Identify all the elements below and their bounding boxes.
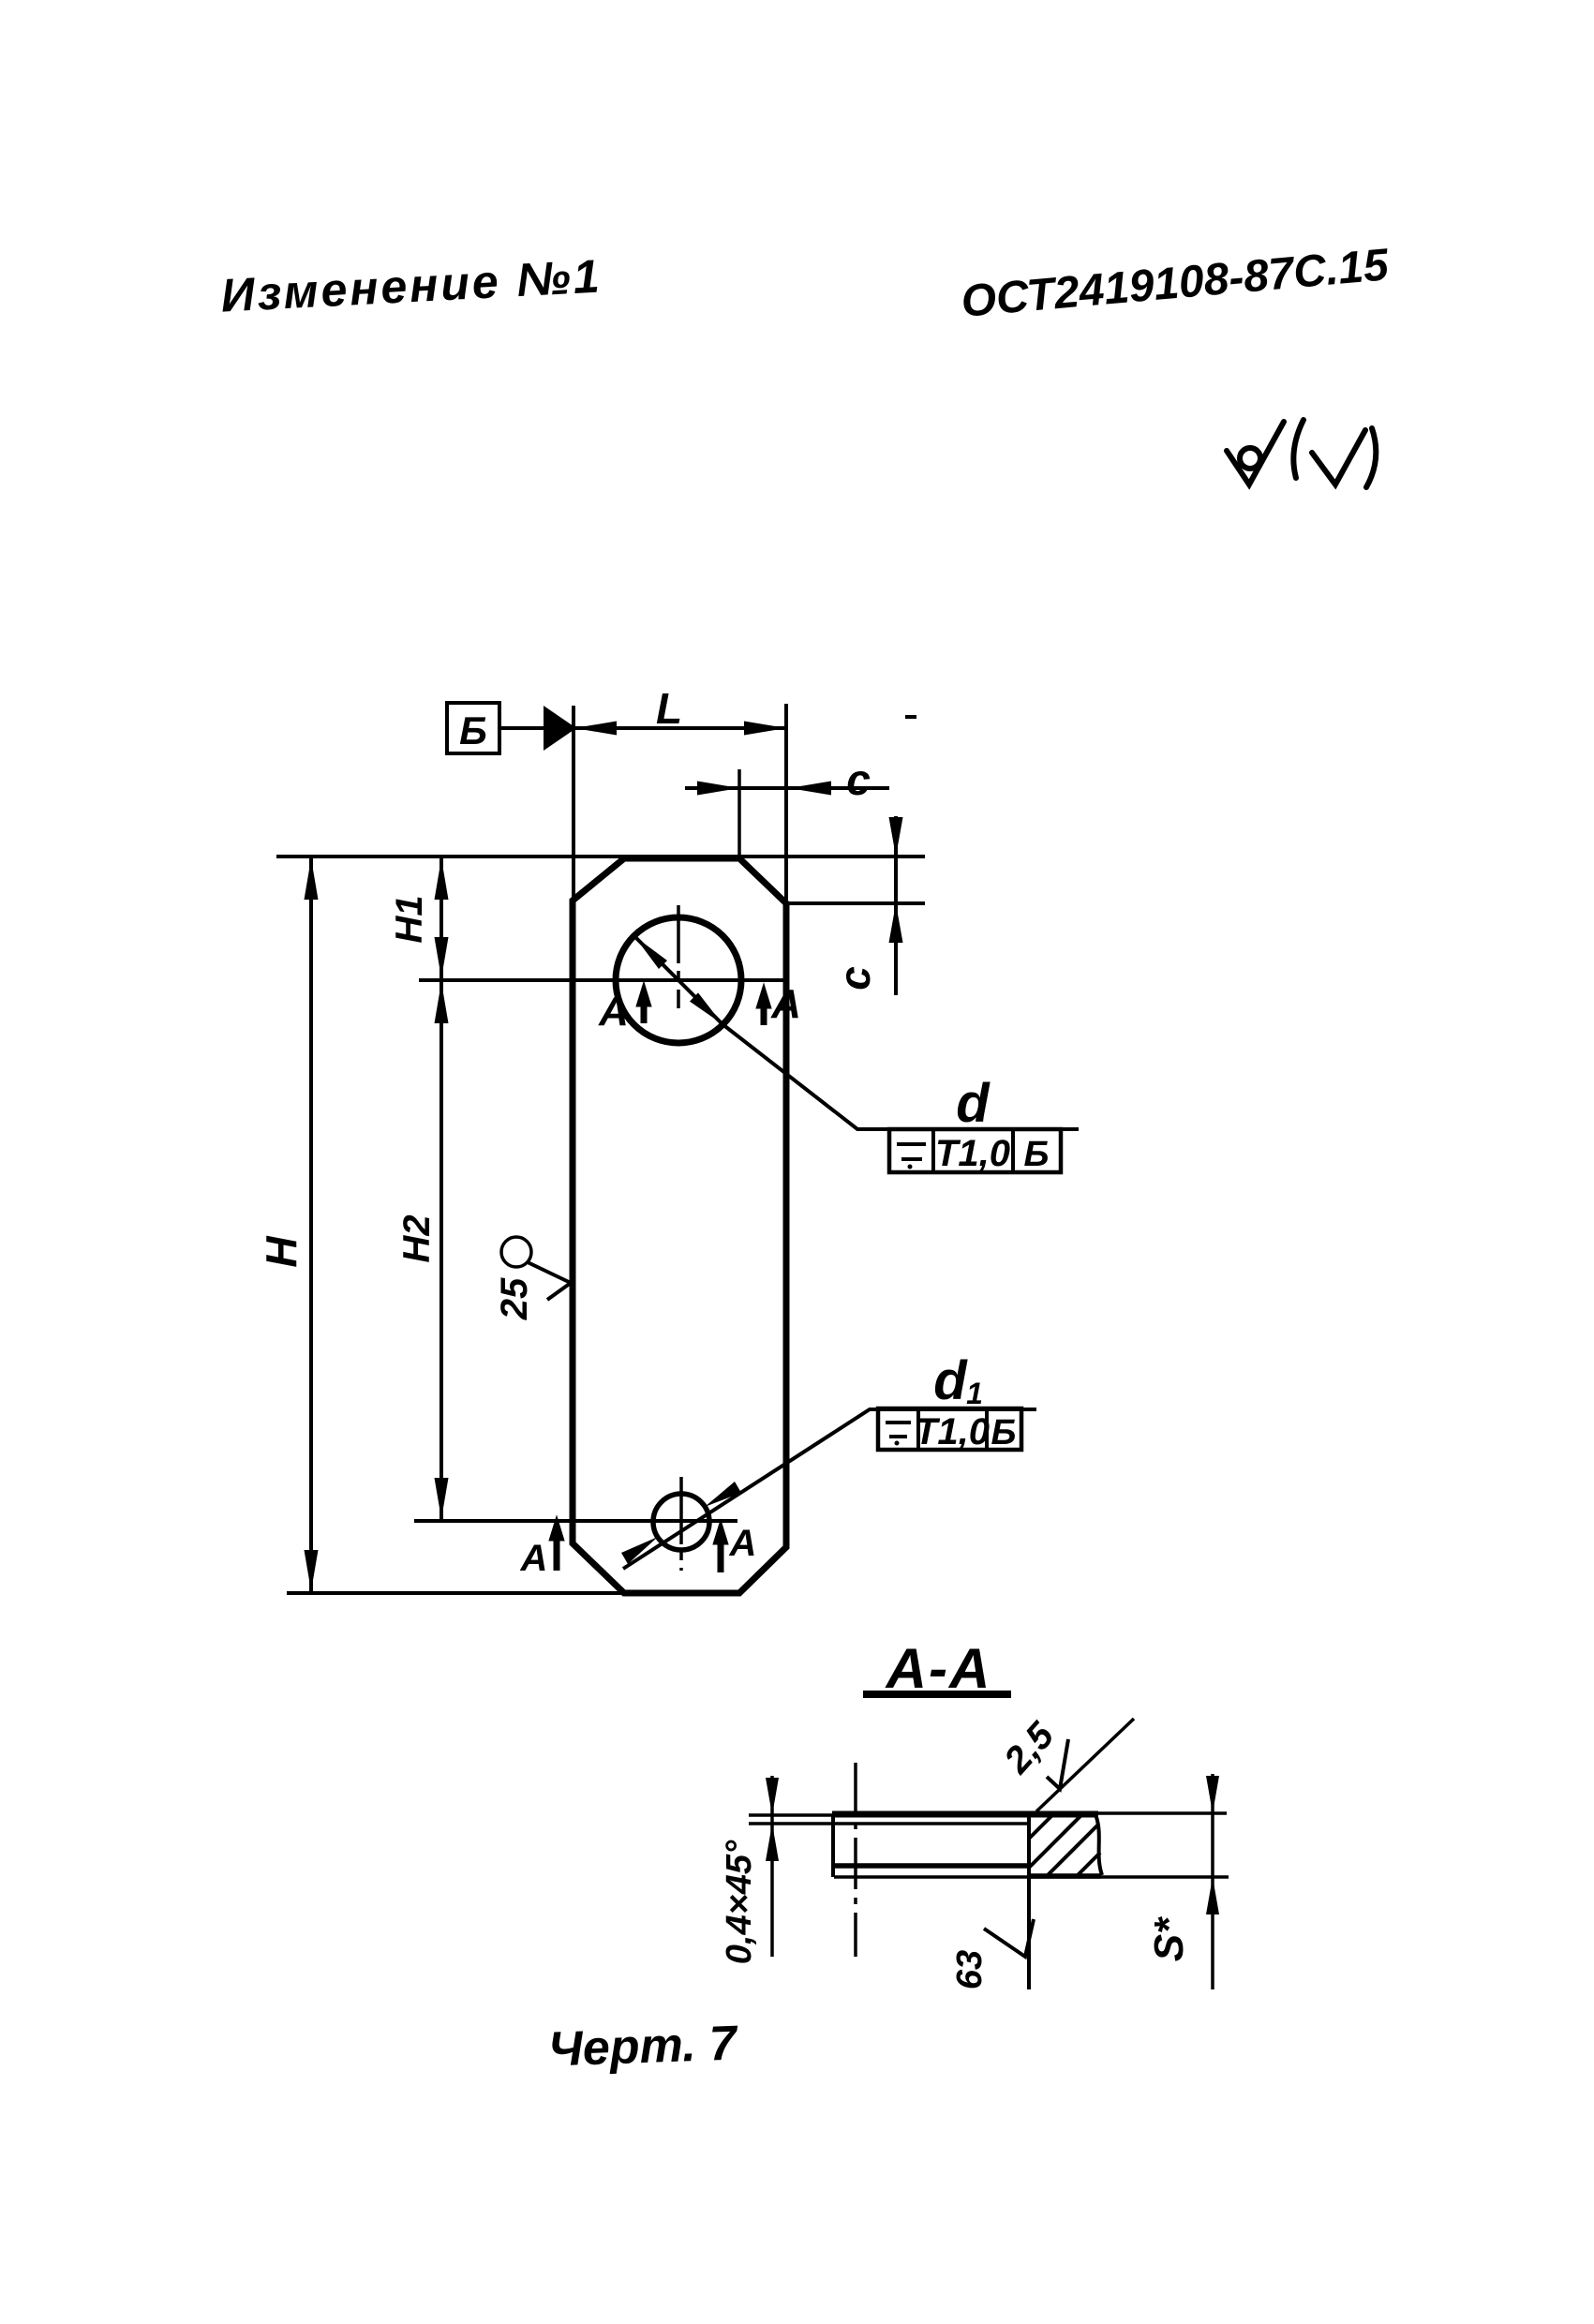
svg-text:d: d: [956, 1073, 991, 1134]
svg-text:S*: S*: [1146, 1916, 1192, 1961]
svg-text:2,5: 2,5: [996, 1714, 1063, 1781]
svg-text:63: 63: [950, 1950, 990, 1989]
svg-text:A: A: [729, 1523, 757, 1564]
svg-text:Изменение №1: Изменение №1: [219, 249, 603, 321]
svg-text:A: A: [598, 989, 629, 1035]
svg-text:1: 1: [966, 1377, 983, 1410]
svg-text:c: c: [846, 755, 871, 804]
svg-text:0,4×45°: 0,4×45°: [720, 1840, 759, 1964]
svg-text:A: A: [520, 1538, 548, 1579]
svg-text:L: L: [656, 684, 682, 733]
svg-text:25: 25: [494, 1277, 535, 1320]
svg-text:Б: Б: [991, 1413, 1017, 1452]
svg-text:Черт. 7: Черт. 7: [547, 2016, 739, 2077]
svg-text:d: d: [933, 1350, 968, 1411]
svg-text:T1,0: T1,0: [915, 1411, 990, 1452]
svg-text:H2: H2: [396, 1214, 438, 1262]
svg-text:c: c: [830, 966, 879, 991]
svg-text:A-A: A-A: [885, 1637, 992, 1700]
svg-text:A: A: [770, 981, 801, 1027]
svg-text:H: H: [257, 1236, 305, 1268]
svg-text:T1,0: T1,0: [935, 1133, 1010, 1174]
svg-text:ОСТ2419108-87С.15: ОСТ2419108-87С.15: [960, 240, 1392, 327]
svg-text:Б: Б: [459, 708, 487, 752]
svg-text:Б: Б: [1024, 1135, 1050, 1174]
svg-text:H1: H1: [389, 895, 430, 943]
